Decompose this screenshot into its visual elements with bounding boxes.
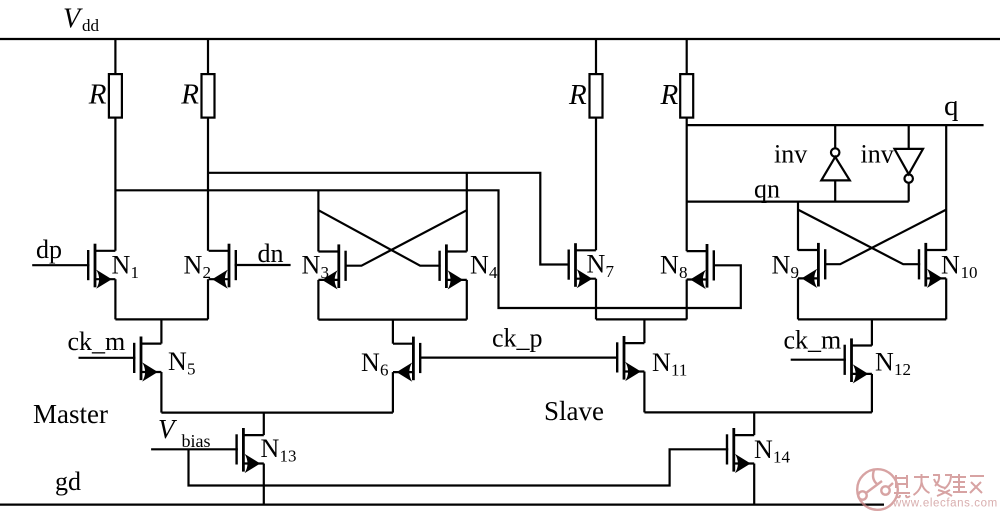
svg-text:ck_m: ck_m [784, 326, 842, 355]
svg-text:12: 12 [894, 360, 911, 379]
svg-text:R: R [660, 79, 679, 111]
svg-text:N: N [587, 250, 606, 279]
svg-text:dp: dp [36, 235, 62, 264]
svg-text:6: 6 [380, 361, 389, 380]
svg-text:5: 5 [187, 360, 196, 379]
svg-text:4: 4 [489, 263, 498, 282]
svg-text:7: 7 [606, 262, 615, 281]
svg-text:ck_p: ck_p [492, 324, 543, 353]
svg-text:ck_m: ck_m [68, 327, 126, 356]
svg-text:qn: qn [754, 175, 780, 204]
svg-text:2: 2 [203, 263, 212, 282]
svg-text:N: N [754, 435, 773, 464]
svg-text:N: N [361, 348, 380, 377]
svg-text:N: N [168, 347, 187, 376]
svg-text:11: 11 [671, 361, 687, 380]
svg-text:gd: gd [55, 467, 81, 496]
svg-text:14: 14 [773, 448, 791, 467]
svg-text:Slave: Slave [544, 396, 604, 426]
svg-text:N: N [941, 251, 960, 280]
svg-text:N: N [302, 250, 321, 279]
svg-text:N: N [112, 250, 131, 279]
svg-text:inv: inv [861, 140, 894, 169]
svg-text:q: q [944, 90, 959, 122]
svg-text:_bias: _bias [172, 431, 211, 451]
svg-text:R: R [180, 79, 199, 111]
svg-text:N: N [184, 250, 203, 279]
svg-text:Master: Master [33, 399, 108, 429]
svg-text:8: 8 [679, 263, 688, 282]
svg-text:inv: inv [774, 140, 807, 169]
svg-text:V: V [63, 4, 83, 35]
svg-text:10: 10 [961, 263, 978, 282]
svg-text:dn: dn [258, 239, 284, 268]
svg-text:N: N [875, 348, 894, 377]
svg-text:N: N [652, 348, 671, 377]
svg-text:www.elecfans.com: www.elecfans.com [892, 498, 998, 510]
svg-text:N: N [660, 250, 679, 279]
svg-text:N: N [261, 434, 280, 463]
svg-text:9: 9 [791, 263, 800, 282]
svg-text:N: N [470, 250, 489, 279]
svg-text:N: N [772, 250, 791, 279]
svg-text:dd: dd [82, 16, 100, 35]
svg-text:1: 1 [131, 263, 140, 282]
svg-text:3: 3 [321, 263, 330, 282]
svg-text:R: R [88, 79, 107, 111]
svg-text:13: 13 [280, 447, 297, 466]
svg-text:R: R [568, 79, 587, 111]
